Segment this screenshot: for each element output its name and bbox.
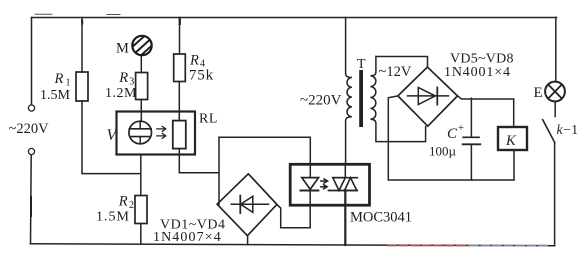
svg-text:75k: 75k [189, 68, 214, 84]
svg-text:1N4007×4: 1N4007×4 [153, 230, 222, 245]
svg-text:1: 1 [66, 77, 71, 88]
svg-text:T: T [357, 57, 366, 72]
svg-text:+: + [458, 123, 464, 134]
svg-text:1.5M: 1.5M [40, 88, 71, 103]
svg-text:−1: −1 [563, 122, 579, 137]
svg-text:RL: RL [199, 112, 218, 127]
svg-text:C: C [447, 126, 458, 142]
svg-text:R: R [189, 52, 199, 68]
svg-text:1.2M: 1.2M [105, 86, 137, 101]
svg-text:K: K [505, 133, 517, 149]
svg-text:R: R [118, 70, 128, 86]
svg-text:100µ: 100µ [429, 144, 457, 159]
svg-text:~220V: ~220V [9, 121, 50, 137]
svg-text:~12V: ~12V [379, 64, 412, 80]
svg-text:MOC3041: MOC3041 [350, 210, 412, 226]
svg-text:1N4001×4: 1N4001×4 [444, 65, 511, 80]
svg-text:R: R [54, 71, 64, 87]
svg-text:E: E [534, 85, 543, 101]
svg-text:1.5M: 1.5M [96, 210, 130, 225]
svg-text:M: M [116, 41, 129, 57]
svg-text:R: R [118, 194, 128, 210]
svg-text:~220V: ~220V [300, 93, 342, 109]
